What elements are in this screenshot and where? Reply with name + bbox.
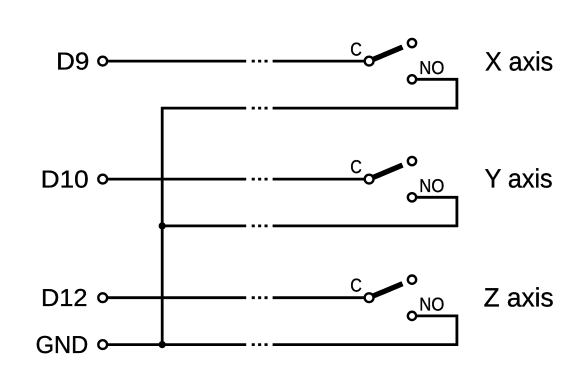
svg-text:Y axis: Y axis	[485, 164, 553, 194]
wire D12 to C of switch Z (left solid part)	[103, 296, 247, 299]
wire D10 to C of switch Y (right solid part)	[273, 178, 370, 181]
switch SW1 throw terminal	[408, 39, 416, 47]
svg-text:NO: NO	[419, 293, 444, 314]
wire X-axis return (right solid part up to NO terminal)	[273, 79, 457, 108]
svg-text:D9: D9	[56, 48, 89, 75]
svg-text:C: C	[350, 156, 362, 177]
wire D9 to C of switch X (right solid part)	[273, 60, 370, 63]
switch SW3 NO terminal	[408, 312, 416, 320]
switch SW2 lever	[369, 165, 402, 179]
wire D10 break dots	[252, 178, 268, 181]
wire D9 to C of switch X (left solid part)	[103, 60, 247, 63]
switch SW3 lever	[369, 284, 402, 298]
pin terminal D10	[98, 175, 107, 184]
wire D10 to C of switch Y (left solid part)	[103, 178, 247, 181]
svg-text:C: C	[350, 38, 362, 59]
switch SW1 common terminal C	[365, 57, 374, 66]
wire X-axis return: bus down-leg and corner to break	[162, 108, 246, 345]
svg-text:D10: D10	[41, 167, 89, 194]
junction dot bus / Y-axis return	[159, 222, 166, 229]
switch SW3 throw terminal	[408, 276, 416, 284]
wire Y-axis return (right solid part up to NO terminal)	[273, 197, 457, 226]
wire Y-axis return break dots	[252, 224, 268, 227]
switch SW1 lever	[369, 47, 402, 61]
pin terminal GND	[98, 340, 107, 349]
wire GND break dots	[252, 343, 268, 346]
switch SW2 throw terminal	[408, 157, 416, 165]
wire D12 break dots	[252, 296, 268, 299]
svg-text:GND: GND	[36, 332, 89, 359]
svg-text:NO: NO	[419, 175, 444, 196]
svg-text:D12: D12	[41, 285, 87, 312]
switch SW3 common terminal C	[365, 293, 374, 302]
svg-text:NO: NO	[419, 57, 444, 78]
switch SW2 common terminal C	[365, 175, 374, 184]
wire GND rail / Z-axis return (right solid part up to NO terminal)	[273, 316, 457, 345]
pin terminal D12	[98, 293, 107, 302]
wire D12 to C of switch Z (right solid part)	[273, 296, 370, 299]
switch SW2 NO terminal	[408, 193, 416, 201]
pin terminal D9	[98, 57, 107, 66]
svg-text:C: C	[350, 274, 362, 295]
wire Y-axis return (bus junction to break, left solid part)	[162, 224, 246, 227]
wire GND rail (left solid part)	[103, 343, 247, 346]
svg-text:Z axis: Z axis	[484, 282, 554, 312]
switch SW1 NO terminal	[408, 75, 416, 83]
wire D9 break dots	[252, 60, 268, 63]
svg-text:X axis: X axis	[485, 46, 553, 76]
junction dot bus / GND rail	[159, 341, 166, 348]
wire X-axis return break dots	[252, 107, 268, 110]
